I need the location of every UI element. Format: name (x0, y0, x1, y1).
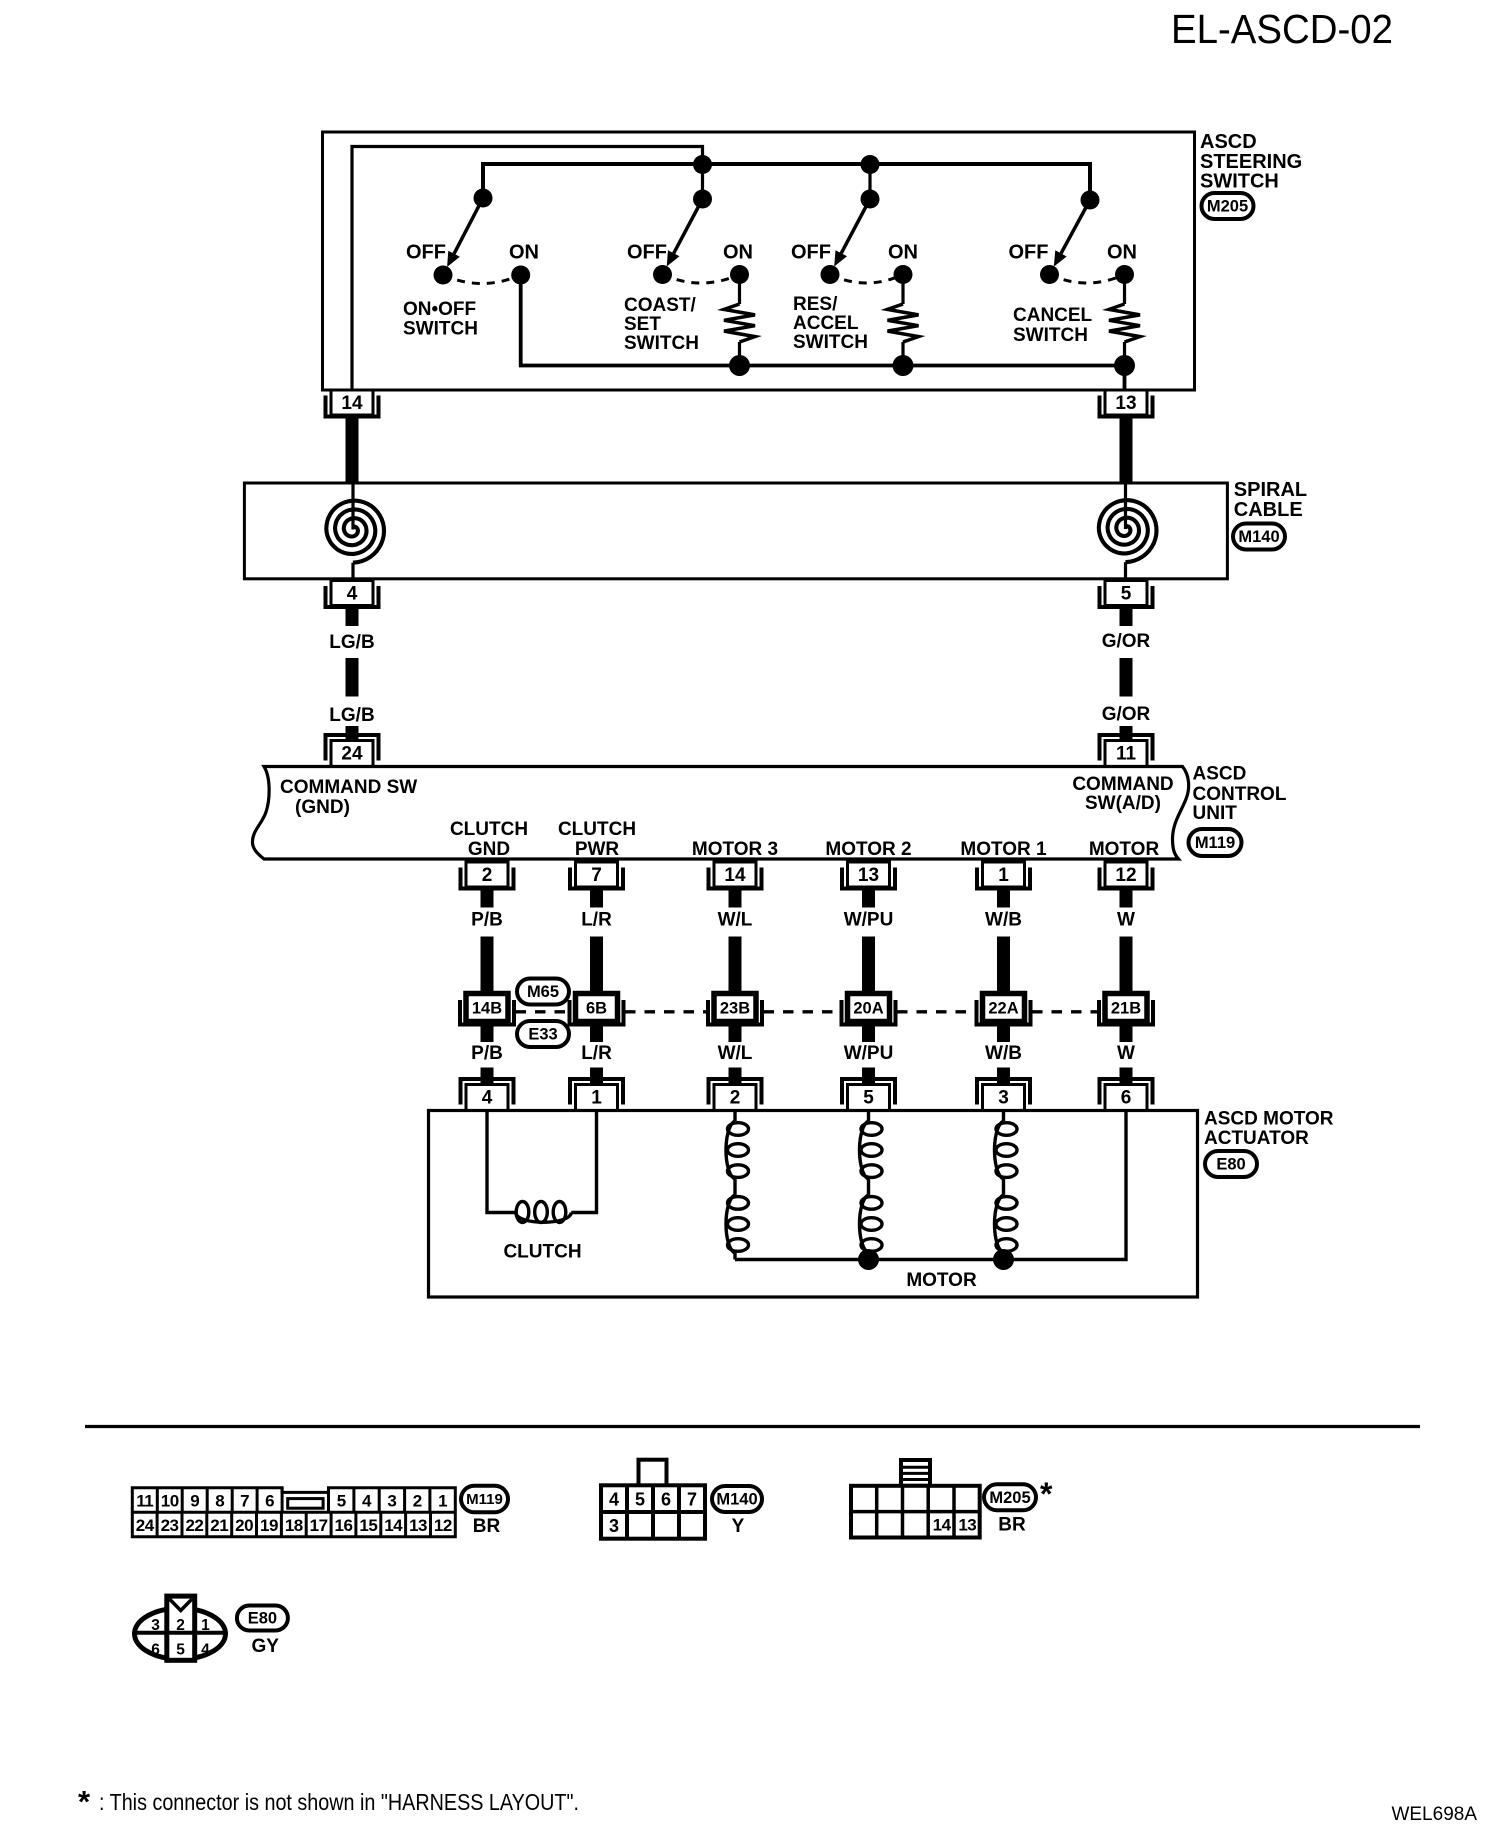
svg-text:1: 1 (591, 1088, 602, 1109)
wire stub below pin 14 (729, 890, 742, 908)
svg-text:11: 11 (1116, 744, 1137, 765)
wire pin14 to spiral cable (346, 418, 359, 485)
wire stub above pin 4 (481, 1068, 494, 1086)
svg-text:9: 9 (190, 1492, 199, 1511)
wire G/OR (1120, 658, 1133, 697)
svg-text:ACCEL: ACCEL (793, 313, 859, 334)
svg-text:SWITCH: SWITCH (403, 319, 478, 340)
svg-text:P/B: P/B (471, 910, 503, 931)
svg-text:4: 4 (347, 584, 358, 605)
svg-text:20A: 20A (853, 1000, 883, 1018)
svg-text:2: 2 (730, 1088, 741, 1109)
svg-text:E33: E33 (528, 1026, 557, 1044)
svg-text:2: 2 (482, 865, 493, 886)
separator line (85, 1425, 1420, 1428)
svg-text:7: 7 (687, 1490, 697, 1510)
svg-text:24: 24 (341, 744, 363, 765)
connector face view M140 8-pin (601, 1460, 705, 1539)
wire stub pin4 (346, 608, 359, 627)
node motor winding 3 to bus (993, 1249, 1014, 1270)
wire LG/B (346, 658, 359, 697)
connector 6B harness (570, 994, 624, 1025)
svg-text:M140: M140 (1238, 528, 1279, 546)
connector pin 1 of M119 (977, 862, 1030, 889)
wire pin13 to spiral cable (1120, 418, 1133, 485)
svg-text:1: 1 (998, 865, 1009, 886)
connector pin 13 of M205 (1100, 390, 1153, 417)
connector oval M119 (1189, 829, 1242, 856)
wire stub below 20A (862, 1021, 875, 1042)
svg-text:5: 5 (1121, 584, 1132, 605)
switch on-off switch dashed throw arc (443, 275, 521, 284)
svg-text:SWITCH: SWITCH (1013, 325, 1088, 346)
svg-text:M205: M205 (989, 1489, 1030, 1507)
svg-text:W/L: W/L (718, 910, 753, 931)
connector pin 3 of E80 (977, 1079, 1030, 1111)
svg-text:L/R: L/R (581, 910, 612, 931)
svg-text:EL-ASCD-02: EL-ASCD-02 (1171, 6, 1393, 52)
connector oval M205 (1202, 193, 1254, 219)
svg-text:22: 22 (185, 1516, 203, 1535)
wire stub below 21B (1120, 1021, 1133, 1042)
connector oval M119 face (461, 1486, 508, 1513)
label ON-OFF SWITCH (403, 299, 478, 340)
connector pin 4 of M140 (326, 581, 379, 608)
switch on-off switch OFF contact (434, 266, 453, 285)
svg-text:W/PU: W/PU (844, 910, 894, 931)
wire res pivot stub (868, 164, 871, 199)
svg-text:PWR: PWR (575, 839, 620, 860)
svg-text:14: 14 (341, 393, 363, 414)
connector pin 2 of M119 (461, 862, 514, 889)
dashed harness link line (516, 1010, 1098, 1013)
svg-text:W/PU: W/PU (844, 1043, 894, 1064)
svg-text:ON: ON (509, 242, 539, 264)
svg-text:CABLE: CABLE (1234, 499, 1303, 521)
label RES/ACCEL SWITCH (793, 294, 868, 353)
svg-text:16: 16 (335, 1516, 353, 1535)
switch res/accel switch OFF contact (821, 265, 840, 284)
ASCD control unit box M119 outline (252, 767, 1188, 860)
svg-text:BR: BR (998, 1515, 1026, 1536)
svg-text:23B: 23B (720, 1000, 750, 1018)
svg-text:BR: BR (473, 1516, 501, 1537)
svg-text:7: 7 (591, 865, 602, 886)
motor coil winding 2 (860, 1111, 883, 1260)
label CLUTCH GND (450, 819, 528, 860)
connector pin 24 of M119 (326, 735, 379, 767)
connector oval M205 face (984, 1484, 1036, 1510)
switch res/accel switch dashed throw arc (830, 275, 903, 284)
connector oval E80 face (237, 1606, 288, 1631)
wire W/PU upper run (862, 937, 875, 995)
svg-text:18: 18 (285, 1516, 303, 1535)
connector pin 2 of E80 (709, 1079, 762, 1111)
connector oval M140 (1233, 524, 1285, 550)
switch on-off switch ON contact (511, 266, 530, 285)
svg-text:SW(A/D): SW(A/D) (1085, 793, 1161, 814)
connector oval M140 face (712, 1486, 762, 1512)
svg-text:1: 1 (201, 1617, 210, 1634)
switch coast/set switch dashed throw arc (663, 275, 740, 284)
wire stub above pin 2 (729, 1068, 742, 1086)
svg-text:3: 3 (387, 1492, 396, 1511)
svg-text:3: 3 (609, 1516, 619, 1536)
wire stub below pin 1 (997, 890, 1010, 908)
svg-text:13: 13 (409, 1516, 427, 1535)
svg-text:: This connector is not shown: : This connector is not shown in "HARNES… (99, 1789, 579, 1815)
svg-text:M119: M119 (1195, 834, 1235, 852)
svg-text:COMMAND SW: COMMAND SW (280, 777, 417, 798)
label CLUTCH PWR (558, 819, 636, 860)
svg-text:P/B: P/B (471, 1043, 503, 1064)
wire pin14 riser (352, 147, 703, 390)
svg-text:ASCD: ASCD (1200, 131, 1257, 153)
svg-text:GND: GND (468, 839, 510, 860)
svg-text:20: 20 (235, 1516, 253, 1535)
svg-text:ON: ON (888, 242, 918, 264)
svg-text:(GND): (GND) (295, 797, 350, 818)
svg-text:ON: ON (1107, 242, 1137, 264)
connector pin 4 of E80 (461, 1079, 514, 1111)
wire stub above pin 5 (862, 1068, 875, 1086)
svg-text:L/R: L/R (581, 1043, 612, 1064)
svg-text:E80: E80 (1216, 1156, 1245, 1174)
svg-text:1: 1 (438, 1492, 447, 1511)
svg-text:CLUTCH: CLUTCH (450, 819, 528, 840)
svg-text:4: 4 (362, 1492, 372, 1511)
connector pin 6 of E80 (1100, 1079, 1153, 1111)
spiral cable box M140 outline (244, 483, 1227, 579)
svg-text:MOTOR: MOTOR (906, 1270, 977, 1291)
connector 21B harness (1099, 994, 1153, 1025)
wire P/B upper run (481, 937, 494, 995)
svg-text:W/B: W/B (985, 910, 1022, 931)
connector pin 14 of M119 (709, 862, 762, 889)
resistor coast/set (724, 275, 755, 366)
motor coil winding 3 (995, 1111, 1018, 1260)
switch on-off switch pivot contact (474, 189, 493, 208)
spiral cable left coil (326, 485, 384, 578)
connector pin 1 of E80 (570, 1079, 623, 1111)
node cancel resistor to bus (1114, 355, 1135, 376)
connector face view E80 6-pin (135, 1596, 226, 1660)
svg-text:G/OR: G/OR (1102, 704, 1151, 725)
svg-text:G/OR: G/OR (1102, 631, 1151, 652)
label ASCD CONTROL UNIT (1193, 764, 1287, 825)
svg-text:COMMAND: COMMAND (1072, 774, 1173, 795)
switch cancel switch OFF contact (1040, 265, 1059, 284)
label COMMAND SW(A/D) (1072, 774, 1173, 814)
motor coil winding 1 (726, 1111, 749, 1260)
resistor res/accel (888, 275, 919, 366)
svg-text:CANCEL: CANCEL (1013, 305, 1093, 326)
label ASCD STEERING SWITCH (1200, 131, 1302, 193)
wire stub above pin 1 (590, 1068, 603, 1086)
svg-text:WEL698A: WEL698A (1391, 1804, 1477, 1825)
svg-text:*: * (1040, 1476, 1053, 1512)
connector pin 5 of M140 (1100, 581, 1153, 608)
svg-text:MOTOR: MOTOR (1089, 839, 1160, 860)
svg-text:2: 2 (176, 1617, 185, 1634)
footnote (78, 1784, 579, 1819)
connector pin 14 of M205 (326, 390, 379, 417)
connector pin 7 of M119 (570, 862, 623, 889)
wire stub below pin 2 (481, 890, 494, 908)
svg-text:3: 3 (998, 1088, 1009, 1109)
wire stub below pin 13 (862, 890, 875, 908)
svg-text:6: 6 (661, 1490, 671, 1510)
wire stub below 6B (590, 1021, 603, 1042)
svg-text:Y: Y (732, 1516, 745, 1537)
svg-text:14: 14 (933, 1516, 952, 1535)
svg-text:GY: GY (251, 1636, 279, 1657)
svg-text:COAST/: COAST/ (624, 295, 697, 316)
svg-text:6B: 6B (586, 1000, 607, 1018)
svg-text:M65: M65 (527, 983, 559, 1001)
node motor winding 2 to bus (858, 1249, 879, 1270)
wire stub below pin 12 (1120, 890, 1133, 908)
svg-text:13: 13 (858, 865, 879, 886)
svg-text:13: 13 (958, 1516, 976, 1535)
svg-text:ASCD: ASCD (1193, 764, 1247, 785)
svg-text:W: W (1117, 910, 1135, 931)
svg-text:7: 7 (240, 1492, 249, 1511)
wire W/L upper run (729, 937, 742, 995)
svg-text:OFF: OFF (627, 242, 667, 264)
svg-text:15: 15 (359, 1516, 377, 1535)
svg-text:OFF: OFF (406, 242, 446, 264)
svg-text:2: 2 (413, 1492, 422, 1511)
switch cancel switch dashed throw arc (1050, 275, 1125, 284)
wire stub below 14B (481, 1021, 494, 1042)
wire W/B upper run (997, 937, 1010, 995)
svg-text:14B: 14B (472, 1000, 502, 1018)
label CANCEL SWITCH (1013, 305, 1093, 346)
connector 14B harness (460, 994, 514, 1025)
connector 22A harness (977, 994, 1031, 1025)
switch coast/set switch pivot contact (693, 190, 712, 209)
svg-text:21: 21 (210, 1516, 228, 1535)
node coast resistor to bus (729, 355, 750, 376)
wire stub below 23B (729, 1021, 742, 1042)
ASCD steering switch box M205 outline (323, 132, 1195, 390)
label COAST/SET SWITCH (624, 295, 699, 354)
switch res/accel switch ON contact (894, 265, 913, 284)
wire L/R upper run (590, 937, 603, 995)
svg-text:CONTROL: CONTROL (1193, 784, 1287, 805)
svg-text:LG/B: LG/B (329, 632, 374, 653)
svg-text:W/L: W/L (718, 1043, 753, 1064)
svg-text:5: 5 (635, 1490, 645, 1510)
switch coast/set switch ON contact (730, 265, 749, 284)
node junction coast feed (693, 155, 712, 174)
ASCD motor actuator box E80 outline (429, 1111, 1198, 1298)
connector pin 11 of M119 (1100, 735, 1153, 767)
svg-text:MOTOR 1: MOTOR 1 (960, 839, 1047, 860)
wire W upper run (1120, 937, 1133, 995)
svg-text:4: 4 (482, 1088, 493, 1109)
svg-text:MOTOR 3: MOTOR 3 (692, 839, 778, 860)
svg-text:24: 24 (136, 1516, 155, 1535)
switch res/accel switch arm arrow (834, 199, 870, 267)
svg-text:SPIRAL: SPIRAL (1234, 479, 1307, 501)
svg-text:14: 14 (384, 1516, 403, 1535)
svg-text:11: 11 (136, 1492, 153, 1511)
wire stub pin24 (346, 726, 359, 741)
connector pin 5 of E80 (842, 1079, 895, 1111)
svg-text:5: 5 (863, 1088, 874, 1109)
svg-text:ASCD MOTOR: ASCD MOTOR (1204, 1109, 1334, 1130)
svg-text:21B: 21B (1111, 1000, 1141, 1018)
spiral cable right coil (1099, 485, 1157, 578)
connector oval E80 (1205, 1151, 1257, 1177)
svg-text:ACTUATOR: ACTUATOR (1204, 1128, 1309, 1149)
connector oval M65 (517, 979, 569, 1005)
svg-text:ON•OFF: ON•OFF (403, 299, 476, 320)
connector 20A harness (842, 994, 896, 1025)
connector 23B harness (708, 994, 762, 1025)
label SPIRAL CABLE (1234, 479, 1307, 521)
svg-text:4: 4 (609, 1490, 619, 1510)
svg-text:12: 12 (434, 1516, 452, 1535)
svg-text:13: 13 (1115, 393, 1136, 414)
node res resistor to bus (893, 355, 914, 376)
wire stub pin5 (1120, 608, 1133, 627)
wire motor common bus (735, 1111, 1126, 1260)
switch coast/set switch OFF contact (653, 265, 672, 284)
switch cancel switch pivot contact (1081, 191, 1100, 210)
svg-text:8: 8 (215, 1492, 224, 1511)
label ASCD MOTOR ACTUATOR (1204, 1109, 1334, 1150)
svg-text:CLUTCH: CLUTCH (558, 819, 636, 840)
svg-text:5: 5 (176, 1642, 185, 1659)
label COMMAND SW (GND) (280, 777, 417, 818)
svg-text:M140: M140 (716, 1491, 757, 1509)
svg-text:6: 6 (1121, 1088, 1132, 1109)
clutch coil (487, 1111, 597, 1223)
svg-text:CLUTCH: CLUTCH (503, 1242, 581, 1263)
switch cancel switch ON contact (1115, 265, 1134, 284)
svg-text:W/B: W/B (985, 1043, 1022, 1064)
svg-text:SWITCH: SWITCH (1200, 171, 1279, 193)
wire bottom bus to pin13 (521, 275, 1125, 389)
svg-text:10: 10 (161, 1492, 179, 1511)
svg-text:19: 19 (260, 1516, 278, 1535)
svg-text:LG/B: LG/B (329, 705, 374, 726)
node junction res feed (861, 155, 880, 174)
svg-text:UNIT: UNIT (1193, 803, 1238, 824)
wire stub pin11 (1120, 726, 1133, 741)
wire coast pivot stub (701, 164, 704, 199)
switch res/accel switch pivot contact (861, 190, 880, 209)
connector face view M205 10-pin (851, 1460, 980, 1538)
svg-text:14: 14 (724, 865, 746, 886)
svg-text:6: 6 (265, 1492, 274, 1511)
svg-text:6: 6 (151, 1642, 160, 1659)
svg-text:SWITCH: SWITCH (793, 332, 868, 353)
svg-text:M205: M205 (1207, 198, 1248, 216)
svg-text:17: 17 (310, 1516, 328, 1535)
wire stub below 22A (997, 1021, 1010, 1042)
svg-text:ON: ON (723, 242, 753, 264)
resistor cancel (1109, 275, 1140, 366)
svg-text:12: 12 (1115, 865, 1136, 886)
svg-text:OFF: OFF (791, 242, 831, 264)
svg-text:4: 4 (201, 1642, 210, 1659)
svg-text:SET: SET (624, 314, 661, 335)
svg-text:MOTOR 2: MOTOR 2 (825, 839, 911, 860)
svg-text:22A: 22A (988, 1000, 1018, 1018)
svg-text:5: 5 (337, 1492, 346, 1511)
wire switch bus (483, 164, 1090, 197)
svg-text:M119: M119 (466, 1491, 503, 1508)
svg-text:3: 3 (151, 1617, 160, 1634)
wire stub below pin 7 (590, 890, 603, 908)
svg-text:23: 23 (161, 1516, 179, 1535)
svg-text:OFF: OFF (1009, 242, 1049, 264)
connector face view M119 24-pin (132, 1488, 455, 1537)
wire stub above pin 6 (1120, 1068, 1133, 1086)
svg-text:E80: E80 (248, 1610, 277, 1628)
connector pin 13 of M119 (842, 862, 895, 889)
connector pin 12 of M119 (1100, 862, 1153, 889)
wire stub above pin 3 (997, 1068, 1010, 1086)
svg-text:SWITCH: SWITCH (624, 333, 699, 354)
switch on-off switch arm arrow (447, 198, 483, 267)
switch coast/set switch arm arrow (667, 199, 703, 267)
svg-text:RES/: RES/ (793, 294, 838, 315)
svg-text:*: * (78, 1784, 91, 1819)
connector oval E33 (517, 1021, 569, 1047)
svg-text:W: W (1117, 1043, 1135, 1064)
switch cancel switch arm arrow (1054, 200, 1090, 267)
